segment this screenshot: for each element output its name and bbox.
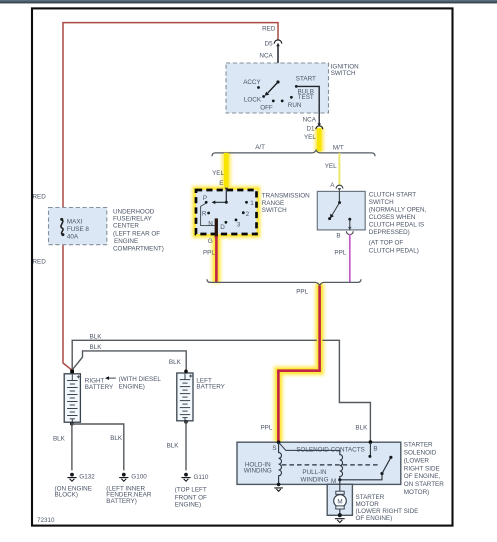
wire S feed to pull-in <box>279 442 340 450</box>
svg-text:M: M <box>337 499 342 506</box>
svg-text:RED: RED <box>33 194 47 201</box>
wire M to contact arm <box>340 474 382 480</box>
svg-text:S: S <box>272 445 276 452</box>
node M <box>338 478 341 481</box>
connector D5 <box>274 40 281 44</box>
svg-text:RIGHT SIDE: RIGHT SIDE <box>404 465 440 472</box>
svg-text:CLOSES WHEN: CLOSES WHEN <box>369 214 416 221</box>
svg-text:BLK: BLK <box>355 425 368 432</box>
ground motor <box>338 513 342 517</box>
right battery B1 <box>64 374 80 422</box>
pointer arrow <box>108 377 116 379</box>
svg-text:OF ENGINE): OF ENGINE) <box>356 515 393 522</box>
svg-text:D5: D5 <box>265 40 274 47</box>
ignition switch box U1 <box>226 63 329 113</box>
svg-text:SWITCH: SWITCH <box>369 199 394 206</box>
connector E arrow <box>225 188 228 191</box>
TRS pivot wire <box>225 190 227 202</box>
svg-text:72310: 72310 <box>37 517 55 524</box>
wire YEL traced from D1 <box>317 128 322 151</box>
svg-text:SWITCH: SWITCH <box>331 70 356 77</box>
svg-text:OFF: OFF <box>260 104 273 111</box>
left battery B2 <box>177 373 193 421</box>
svg-text:CLUTCH PEDAL IS: CLUTCH PEDAL IS <box>369 222 424 229</box>
ignition lever <box>276 80 279 83</box>
glow halo: transmission range switch box outline <box>196 190 257 234</box>
svg-text:STARTER: STARTER <box>404 442 433 449</box>
wire YEL traced A/T branch <box>224 153 229 187</box>
svg-text:D1: D1 <box>306 126 315 133</box>
wire B into contacts <box>369 442 371 456</box>
svg-text:START: START <box>296 76 316 83</box>
svg-text:BLK: BLK <box>167 443 180 450</box>
ground G110 <box>184 473 188 477</box>
clutch start switch box S2 <box>317 191 365 230</box>
maxi fuse box <box>49 208 107 245</box>
svg-text:(LOWER RIGHT SIDE: (LOWER RIGHT SIDE <box>356 508 419 515</box>
svg-text:WINDING: WINDING <box>301 477 329 484</box>
wire BLK to left battery <box>72 351 186 371</box>
wire BLK right battery to solenoid B <box>72 340 370 442</box>
svg-text:SOLENOID CONTACTS: SOLENOID CONTACTS <box>296 446 364 453</box>
svg-text:ENGINE: ENGINE <box>114 238 138 245</box>
connector D1 <box>317 123 321 126</box>
svg-text:ACCY: ACCY <box>243 79 261 86</box>
ground G132 <box>70 473 74 477</box>
svg-text:FUSE 8: FUSE 8 <box>67 226 90 233</box>
wire PPL clutch to merge <box>349 234 351 282</box>
svg-text:WINDING: WINDING <box>244 468 272 475</box>
pull-in winding L2 <box>340 450 343 479</box>
svg-text:(AT TOP OF: (AT TOP OF <box>369 239 404 246</box>
svg-text:YEL: YEL <box>304 134 316 141</box>
svg-text:BLK: BLK <box>90 344 103 351</box>
fuse F1 symbol <box>61 218 66 236</box>
highlight glow halo group <box>196 128 320 442</box>
svg-text:CLUTCH START: CLUTCH START <box>369 192 416 199</box>
svg-text:YEL: YEL <box>325 163 337 170</box>
ground hold-in <box>277 483 281 487</box>
svg-text:NCA: NCA <box>259 52 273 59</box>
wire BLK branch to G100 <box>72 424 124 470</box>
glow halo: TRS wiper and PPL wire to merge <box>212 218 221 283</box>
split brace A/T M/T <box>212 150 375 156</box>
svg-text:PPL: PPL <box>203 249 215 256</box>
svg-text:(WITH DIESEL: (WITH DIESEL <box>119 376 162 383</box>
svg-text:ENGINE): ENGINE) <box>119 383 145 390</box>
wire YEL M/T branch <box>338 153 340 186</box>
wire motor to ground <box>339 509 341 515</box>
ground G100 <box>122 473 126 477</box>
connector B clutch <box>348 227 351 230</box>
wire from START contact down <box>296 86 319 124</box>
wire PPL traced combined to solenoid S <box>278 286 319 442</box>
svg-text:MOTOR): MOTOR) <box>404 489 429 496</box>
svg-text:(TOP LEFT: (TOP LEFT <box>175 486 207 493</box>
svg-text:P: P <box>203 195 207 202</box>
glow: transmission range switch box outline <box>196 190 257 234</box>
svg-text:2: 2 <box>246 211 250 218</box>
glow: YEL wire A/T branch <box>223 153 230 187</box>
mechanical link dashed <box>282 464 380 466</box>
svg-text:N: N <box>208 221 213 228</box>
svg-text:BLK: BLK <box>110 435 123 442</box>
svg-text:BLK: BLK <box>90 334 103 341</box>
svg-text:(LOWER: (LOWER <box>404 457 430 464</box>
svg-text:YEL: YEL <box>212 170 224 177</box>
svg-text:PPL: PPL <box>296 288 308 295</box>
glow halo: combined PPL wire to solenoid S <box>278 284 319 442</box>
TRS P-N link wire <box>201 203 215 226</box>
starter motor box <box>327 484 352 515</box>
svg-text:FRONT OF: FRONT OF <box>175 494 207 501</box>
svg-text:SOLENOID: SOLENOID <box>404 450 437 457</box>
highlight glow solid group <box>196 128 320 442</box>
svg-text:BATTERY: BATTERY <box>85 384 114 391</box>
glow halo: YEL wire D1 to split <box>315 128 324 152</box>
svg-text:BLK: BLK <box>169 359 182 366</box>
transmission range switch box S1 <box>196 190 257 234</box>
svg-text:CENTER: CENTER <box>113 222 139 229</box>
svg-text:ENGINE): ENGINE) <box>175 502 201 509</box>
ignition contacts <box>257 86 260 89</box>
svg-text:PULL-IN: PULL-IN <box>302 469 327 476</box>
svg-text:RED: RED <box>262 26 276 33</box>
TRS contacts <box>205 201 208 204</box>
svg-text:NCA: NCA <box>303 117 317 124</box>
glow: TRS wiper and PPL wire to merge <box>214 218 220 283</box>
hold-in winding L1 <box>279 442 282 484</box>
svg-text:B: B <box>336 233 340 240</box>
svg-text:BATTERY: BATTERY <box>196 384 225 391</box>
node S <box>277 441 281 445</box>
svg-text:BATTERY): BATTERY) <box>106 498 137 505</box>
top toolbar bar <box>0 0 497 3</box>
glow: combined PPL wire to solenoid S <box>278 284 319 442</box>
wire M to motor <box>339 480 341 491</box>
svg-text:DEPRESSED): DEPRESSED) <box>369 229 410 236</box>
svg-text:SWITCH: SWITCH <box>262 207 287 214</box>
glow: YEL wire D1 to split <box>316 128 323 151</box>
svg-text:D: D <box>220 224 225 231</box>
svg-text:A/T: A/T <box>255 144 265 151</box>
svg-text:UNDERHOOD: UNDERHOOD <box>113 208 155 215</box>
wire crossing: traced PPL over BLK <box>317 334 323 347</box>
glow halo: YEL wire A/T branch <box>222 153 231 187</box>
svg-text:(NORMALLY OPEN,: (NORMALLY OPEN, <box>369 207 427 214</box>
starter solenoid box <box>237 442 401 484</box>
svg-text:BLK: BLK <box>53 435 66 442</box>
svg-text:LOCK: LOCK <box>244 96 262 103</box>
svg-text:BLOCK): BLOCK) <box>55 492 78 499</box>
node B <box>369 440 373 444</box>
svg-text:G110: G110 <box>194 474 209 481</box>
svg-text:40A: 40A <box>67 233 79 240</box>
wire BLK left battery to G110 <box>185 421 187 471</box>
TRS N wiper bar <box>215 218 218 237</box>
svg-text:MAXI: MAXI <box>67 218 83 225</box>
svg-text:OF ENGINE,: OF ENGINE, <box>404 473 441 480</box>
svg-text:RANGE: RANGE <box>262 200 284 207</box>
svg-text:PPL: PPL <box>334 249 346 256</box>
svg-text:G100: G100 <box>131 474 147 481</box>
contact arm <box>382 458 391 474</box>
wire PPL traced from TRS G <box>215 236 218 282</box>
svg-text:TRANSMISSION: TRANSMISSION <box>262 193 310 200</box>
svg-text:PPL: PPL <box>260 424 272 431</box>
motor M1 <box>334 495 347 508</box>
svg-text:R: R <box>202 211 207 218</box>
svg-text:1: 1 <box>250 200 254 207</box>
wire red from battery to ignition D5 <box>63 23 278 371</box>
wire BLK right battery to G132 <box>71 422 73 470</box>
svg-text:G: G <box>208 238 213 245</box>
merge brace <box>207 279 361 285</box>
svg-text:TEST: TEST <box>298 94 314 101</box>
svg-text:COMPARTMENT): COMPARTMENT) <box>113 245 164 252</box>
node battery junction <box>70 370 74 374</box>
svg-text:STARTER: STARTER <box>356 494 385 501</box>
svg-text:E: E <box>219 180 223 187</box>
svg-text:(LEFT REAR OF: (LEFT REAR OF <box>113 230 160 237</box>
svg-text:M/T: M/T <box>333 144 344 151</box>
svg-text:B: B <box>373 445 377 452</box>
TRS lever arm <box>215 201 227 203</box>
node battery terminals <box>184 370 188 374</box>
wire into ignition switch <box>277 44 279 82</box>
svg-text:CLUTCH PEDAL): CLUTCH PEDAL) <box>369 247 419 254</box>
svg-text:3: 3 <box>237 222 241 229</box>
connector A <box>336 185 343 188</box>
svg-text:MOTOR: MOTOR <box>356 501 380 508</box>
svg-text:G132: G132 <box>79 474 95 481</box>
svg-text:ON STARTER: ON STARTER <box>404 481 444 488</box>
svg-text:RUN: RUN <box>288 102 302 109</box>
svg-text:RED: RED <box>33 259 47 266</box>
